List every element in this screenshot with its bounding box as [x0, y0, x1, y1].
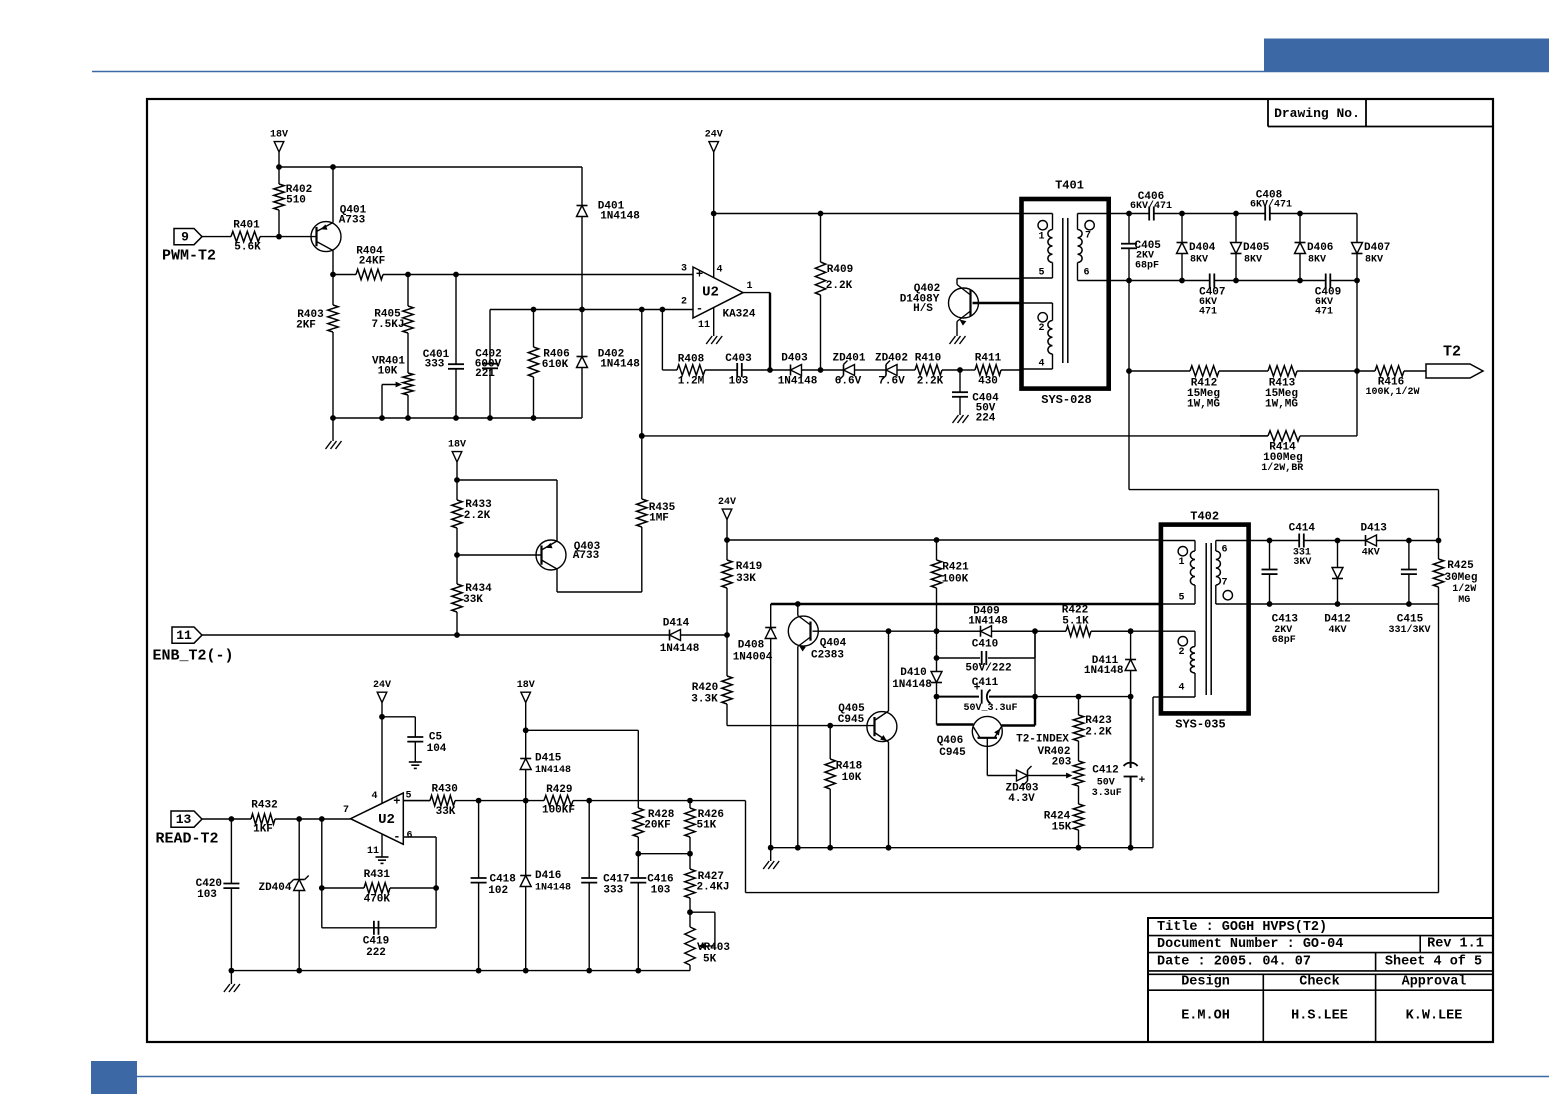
svg-text:510: 510	[286, 195, 306, 207]
svg-text:6: 6	[1083, 268, 1089, 279]
svg-text:C413: C413	[1272, 614, 1299, 626]
svg-text:R408: R408	[678, 354, 705, 366]
svg-text:430: 430	[978, 376, 998, 388]
svg-text:18V: 18V	[270, 130, 288, 141]
svg-text:6.6V: 6.6V	[835, 376, 862, 388]
svg-text:24V: 24V	[373, 680, 391, 691]
svg-text:11: 11	[698, 320, 710, 331]
svg-text:100K: 100K	[942, 574, 969, 586]
svg-text:ZD404: ZD404	[258, 882, 291, 894]
svg-text:1.2M: 1.2M	[678, 376, 705, 388]
svg-text:103: 103	[729, 376, 749, 388]
svg-text:1/2W,BR: 1/2W,BR	[1261, 462, 1303, 474]
svg-text:221: 221	[475, 368, 495, 380]
svg-text:D407: D407	[1364, 242, 1390, 254]
svg-text:68pF: 68pF	[1135, 260, 1159, 271]
svg-text:A733: A733	[339, 215, 366, 227]
svg-text:E.M.OH: E.M.OH	[1181, 1009, 1230, 1024]
svg-text:R411: R411	[975, 353, 1002, 365]
svg-text:2.2K: 2.2K	[464, 510, 491, 522]
svg-text:102: 102	[488, 885, 508, 897]
svg-text:8KV: 8KV	[1244, 255, 1262, 266]
svg-text:5: 5	[1038, 268, 1044, 279]
svg-text:C412: C412	[1092, 765, 1118, 777]
svg-text:R418: R418	[836, 761, 863, 773]
svg-text:1N4148: 1N4148	[600, 359, 640, 371]
svg-text:Title : GOGH HVPS(T2): Title : GOGH HVPS(T2)	[1157, 920, 1327, 935]
svg-text:24V: 24V	[718, 497, 736, 508]
svg-text:50V_3.3uF: 50V_3.3uF	[963, 703, 1017, 714]
svg-text:1KF: 1KF	[253, 824, 273, 836]
svg-text:C410: C410	[972, 639, 998, 651]
svg-text:ENB_T2(-): ENB_T2(-)	[152, 648, 233, 665]
svg-text:1W,MG: 1W,MG	[1265, 399, 1298, 411]
svg-text:3.3uF: 3.3uF	[1092, 788, 1122, 799]
svg-text:U2: U2	[702, 285, 719, 301]
svg-text:MG: MG	[1458, 595, 1470, 606]
svg-text:1: 1	[1038, 232, 1044, 243]
svg-text:7: 7	[1221, 578, 1227, 589]
svg-text:4.3V: 4.3V	[1008, 793, 1035, 805]
svg-text:18V: 18V	[517, 680, 535, 691]
svg-text:470K: 470K	[364, 894, 391, 906]
svg-text:1N4148: 1N4148	[892, 679, 932, 691]
svg-text:1/2W: 1/2W	[1452, 583, 1476, 595]
svg-text:R432: R432	[251, 800, 277, 812]
svg-text:30Meg: 30Meg	[1444, 572, 1477, 584]
svg-text:11: 11	[367, 846, 379, 857]
svg-text:5: 5	[405, 791, 411, 802]
svg-text:1MF: 1MF	[649, 513, 669, 525]
svg-text:D403: D403	[781, 353, 808, 365]
svg-text:6: 6	[406, 831, 412, 842]
svg-text:103: 103	[651, 884, 671, 896]
svg-text:1N4148: 1N4148	[1084, 665, 1124, 677]
svg-text:1W,MG: 1W,MG	[1187, 399, 1220, 411]
svg-text:33K: 33K	[736, 573, 756, 585]
svg-text:224: 224	[976, 413, 996, 425]
svg-text:D416: D416	[535, 870, 561, 882]
svg-text:20KF: 20KF	[644, 820, 670, 832]
svg-text:D408: D408	[738, 640, 765, 652]
svg-text:4: 4	[371, 791, 377, 802]
svg-text:1N4148: 1N4148	[600, 211, 640, 223]
svg-text:222: 222	[366, 947, 386, 959]
svg-text:C945: C945	[939, 747, 966, 759]
svg-text:18V: 18V	[448, 440, 466, 451]
svg-text:Sheet 4 of 5: Sheet 4 of 5	[1385, 955, 1482, 970]
svg-text:104: 104	[427, 743, 447, 755]
svg-text:1N4148: 1N4148	[535, 883, 571, 894]
svg-text:KA324: KA324	[722, 309, 755, 321]
svg-text:Design: Design	[1181, 974, 1230, 989]
svg-text:100K,1/2W: 100K,1/2W	[1365, 386, 1419, 398]
svg-text:4KV: 4KV	[1328, 625, 1346, 636]
svg-text:D415: D415	[535, 752, 562, 764]
svg-text:2: 2	[1038, 323, 1044, 334]
svg-text:Rev 1.1: Rev 1.1	[1427, 937, 1484, 952]
svg-text:4KV: 4KV	[1362, 548, 1380, 559]
svg-text:103: 103	[197, 889, 217, 901]
svg-text:D413: D413	[1360, 523, 1387, 535]
svg-text:R425: R425	[1447, 560, 1474, 572]
svg-text:4: 4	[716, 265, 722, 276]
svg-text:C411: C411	[972, 677, 999, 689]
svg-text:R430: R430	[431, 784, 457, 796]
svg-text:51K: 51K	[696, 820, 716, 832]
svg-text:471: 471	[1315, 307, 1333, 318]
svg-text:8KV: 8KV	[1308, 255, 1326, 266]
svg-text:A733: A733	[573, 550, 600, 562]
svg-text:ZD402: ZD402	[875, 353, 908, 365]
svg-text:8KV: 8KV	[1190, 255, 1208, 266]
svg-text:203: 203	[1052, 757, 1072, 769]
svg-text:7: 7	[1085, 231, 1091, 242]
svg-text:SYS-035: SYS-035	[1175, 718, 1225, 732]
svg-text:7: 7	[343, 805, 349, 816]
svg-text:Q404: Q404	[820, 638, 847, 650]
svg-text:T402: T402	[1190, 510, 1219, 524]
svg-text:50V: 50V	[1097, 777, 1115, 788]
svg-text:Drawing No.: Drawing No.	[1274, 106, 1360, 121]
svg-text:-: -	[393, 830, 400, 844]
svg-text:10K: 10K	[842, 772, 862, 784]
svg-text:D404: D404	[1189, 242, 1216, 254]
svg-text:C414: C414	[1289, 523, 1316, 535]
svg-text:C2383: C2383	[811, 650, 844, 662]
svg-text:7.5KJ: 7.5KJ	[371, 319, 404, 331]
svg-text:610K: 610K	[542, 359, 569, 371]
svg-text:7.6V: 7.6V	[878, 376, 905, 388]
svg-text:R423: R423	[1085, 715, 1112, 727]
svg-text:3.3K: 3.3K	[691, 694, 718, 706]
svg-text:R409: R409	[827, 264, 853, 276]
svg-text:D410: D410	[900, 667, 926, 679]
svg-text:C403: C403	[725, 353, 752, 365]
svg-text:R431: R431	[364, 869, 391, 881]
svg-text:Date : 2005. 04. 07: Date : 2005. 04. 07	[1157, 955, 1311, 970]
svg-text:5: 5	[1178, 593, 1184, 604]
svg-text:2.2K: 2.2K	[1085, 727, 1112, 739]
svg-text:R410: R410	[915, 353, 941, 365]
svg-text:Check: Check	[1299, 974, 1340, 989]
svg-text:Q406: Q406	[937, 735, 963, 747]
svg-text:33K: 33K	[436, 806, 456, 818]
svg-text:PWM-T2: PWM-T2	[162, 248, 216, 265]
svg-text:VR403: VR403	[697, 942, 730, 954]
svg-text:50V/222: 50V/222	[965, 663, 1011, 675]
svg-text:68pF: 68pF	[1272, 635, 1296, 646]
svg-text:SYS-028: SYS-028	[1041, 393, 1091, 407]
svg-text:24V: 24V	[705, 130, 723, 141]
svg-text:D405: D405	[1243, 242, 1270, 254]
svg-text:T401: T401	[1055, 179, 1084, 193]
svg-text:15K: 15K	[1052, 822, 1072, 834]
svg-text:333: 333	[425, 359, 445, 371]
svg-text:+: +	[393, 795, 400, 809]
svg-text:33K: 33K	[463, 594, 483, 606]
svg-text:U2: U2	[378, 812, 395, 828]
svg-text:R429: R429	[546, 784, 572, 796]
svg-text:10K: 10K	[378, 366, 398, 378]
svg-text:1: 1	[746, 281, 752, 292]
svg-text:1N4148: 1N4148	[660, 643, 700, 655]
svg-text:R401: R401	[233, 220, 260, 232]
svg-text:2: 2	[681, 297, 687, 308]
svg-text:1N4148: 1N4148	[778, 376, 818, 388]
svg-text:9: 9	[181, 230, 189, 245]
svg-text:100KF: 100KF	[542, 805, 575, 817]
svg-text:Document Number : GO-04: Document Number : GO-04	[1157, 937, 1343, 952]
svg-text:2KF: 2KF	[296, 320, 316, 332]
svg-text:R420: R420	[692, 682, 718, 694]
svg-text:3KV: 3KV	[1293, 557, 1311, 568]
svg-text:4: 4	[1178, 683, 1184, 694]
svg-text:6: 6	[1221, 545, 1227, 556]
svg-text:331/3KV: 331/3KV	[1388, 624, 1430, 636]
svg-text:R421: R421	[942, 562, 969, 574]
svg-text:1N4148: 1N4148	[535, 765, 571, 776]
svg-text:6KV/471: 6KV/471	[1130, 200, 1172, 212]
svg-text:4: 4	[1038, 359, 1044, 370]
svg-text:C415: C415	[1397, 614, 1424, 626]
svg-text:+: +	[1139, 775, 1146, 787]
svg-text:1N4004: 1N4004	[733, 652, 773, 664]
svg-text:T2: T2	[1443, 344, 1461, 361]
svg-text:11: 11	[176, 628, 192, 643]
svg-text:2: 2	[1178, 647, 1184, 658]
svg-text:1N4148: 1N4148	[968, 616, 1008, 628]
svg-text:Approval: Approval	[1402, 974, 1467, 989]
svg-text:D406: D406	[1307, 242, 1333, 254]
svg-text:C418: C418	[489, 874, 516, 886]
svg-text:2.2K: 2.2K	[826, 280, 853, 292]
svg-text:C419: C419	[363, 936, 389, 948]
svg-text:+: +	[696, 268, 703, 282]
svg-text:5.1K: 5.1K	[1062, 616, 1089, 628]
svg-text:5.6K: 5.6K	[234, 242, 261, 254]
svg-text:6KV/471: 6KV/471	[1250, 199, 1292, 211]
svg-text:R419: R419	[736, 561, 762, 573]
svg-text:2.2K: 2.2K	[917, 376, 944, 388]
svg-text:T2-INDEX: T2-INDEX	[1016, 734, 1069, 746]
svg-text:K.W.LEE: K.W.LEE	[1406, 1009, 1463, 1024]
svg-text:H.S.LEE: H.S.LEE	[1291, 1009, 1348, 1024]
svg-text:333: 333	[603, 884, 623, 896]
svg-text:13: 13	[176, 812, 192, 827]
svg-text:C5: C5	[429, 732, 443, 744]
svg-text:D412: D412	[1324, 614, 1350, 626]
svg-text:5K: 5K	[703, 954, 717, 966]
svg-text:ZD401: ZD401	[832, 353, 865, 365]
svg-text:C945: C945	[838, 714, 865, 726]
svg-text:471: 471	[1199, 307, 1217, 318]
svg-text:2.4KJ: 2.4KJ	[696, 882, 729, 894]
svg-text:READ-T2: READ-T2	[155, 831, 218, 848]
svg-text:D414: D414	[663, 618, 690, 630]
svg-text:1: 1	[1178, 557, 1184, 568]
svg-text:24KF: 24KF	[359, 256, 385, 268]
svg-text:H/S: H/S	[913, 303, 933, 315]
svg-text:3: 3	[681, 264, 687, 275]
svg-text:8KV: 8KV	[1365, 255, 1383, 266]
svg-text:-: -	[696, 302, 703, 316]
